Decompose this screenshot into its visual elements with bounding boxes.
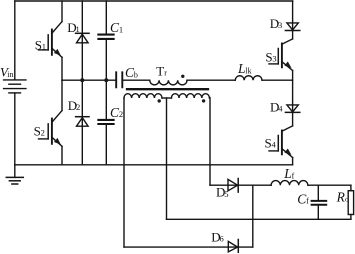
wire secondary right to D5 bbox=[210, 184, 271, 186]
ground bbox=[6, 165, 23, 184]
wire center tap down bbox=[166, 98, 168, 219]
capacitor C1 bbox=[98, 35, 113, 39]
wire top rail bbox=[15, 0, 293, 2]
svg-text:3: 3 bbox=[278, 20, 282, 30]
wire Lf to Ro bbox=[308, 184, 351, 186]
diode D2 bbox=[76, 117, 89, 127]
transformer core bbox=[127, 88, 208, 90]
svg-text:2: 2 bbox=[119, 109, 123, 119]
wire left rail lower bbox=[14, 93, 16, 165]
transformer T primary winding bbox=[150, 80, 187, 85]
wire Llk to right leg bbox=[262, 79, 293, 81]
svg-text:2: 2 bbox=[41, 128, 45, 138]
label D1 bbox=[67, 20, 79, 35]
svg-text:r: r bbox=[164, 69, 167, 78]
svg-text:3: 3 bbox=[272, 54, 276, 64]
transformer secondary winding right bbox=[171, 94, 209, 98]
inductor Llk bbox=[235, 76, 262, 80]
node secondary dot left bbox=[158, 99, 161, 102]
svg-text:f: f bbox=[292, 171, 295, 180]
diode D5 bbox=[228, 179, 238, 193]
label S4 bbox=[265, 136, 277, 151]
label Ro bbox=[336, 190, 349, 205]
svg-text:L: L bbox=[237, 61, 246, 76]
wire secondary centre tie bbox=[162, 97, 171, 99]
wire output return bbox=[167, 218, 351, 220]
svg-text:lk: lk bbox=[245, 66, 251, 75]
svg-text:1: 1 bbox=[76, 24, 80, 34]
svg-text:2: 2 bbox=[76, 102, 80, 112]
diode D6 bbox=[228, 240, 238, 253]
wire mid rail bbox=[62, 79, 115, 81]
label Tr bbox=[156, 64, 167, 79]
node junction dot at C leg bbox=[104, 78, 108, 82]
capacitor Cf bbox=[312, 185, 327, 219]
battery Vin bbox=[4, 80, 26, 93]
wire D6 branch vertical bbox=[252, 185, 254, 247]
svg-text:b: b bbox=[134, 70, 138, 79]
wire secondary right terminal down bbox=[209, 98, 211, 186]
capacitor Cb bbox=[116, 72, 122, 87]
label D4 bbox=[270, 99, 283, 114]
label S2 bbox=[34, 124, 45, 139]
resistor Ro bbox=[348, 185, 353, 219]
svg-text:4: 4 bbox=[278, 104, 283, 114]
svg-text:in: in bbox=[7, 70, 13, 79]
label D5 bbox=[216, 185, 228, 200]
transistor S1 (IGBT) bbox=[39, 1, 63, 80]
inductor Lf bbox=[271, 181, 308, 186]
svg-text:f: f bbox=[306, 196, 309, 205]
label S3 bbox=[265, 50, 276, 65]
node secondary dot right bbox=[202, 99, 205, 102]
label C1 bbox=[110, 20, 123, 35]
label D2 bbox=[68, 98, 80, 113]
wire primary to Llk bbox=[187, 79, 235, 81]
label Lf bbox=[283, 166, 294, 181]
wire capacitor leg bbox=[105, 1, 107, 165]
label Vin bbox=[0, 65, 13, 80]
diode D3 bbox=[285, 1, 299, 39]
label Cf bbox=[297, 191, 309, 206]
wire secondary left terminal down bbox=[123, 98, 125, 247]
transistor S4 (IGBT) bbox=[269, 126, 293, 165]
node primary polarity dot bbox=[181, 75, 184, 78]
diode D1 bbox=[76, 33, 89, 43]
wire bottom rail bbox=[15, 164, 293, 166]
transformer secondary winding left bbox=[124, 94, 162, 98]
svg-text:5: 5 bbox=[224, 189, 228, 199]
svg-text:1: 1 bbox=[119, 24, 123, 34]
capacitor C2 bbox=[98, 120, 113, 124]
diode D4 bbox=[285, 105, 299, 126]
label S1 bbox=[35, 37, 46, 52]
wire left rail upper bbox=[14, 1, 16, 80]
svg-text:T: T bbox=[156, 64, 164, 79]
transistor S3 (IGBT) bbox=[269, 39, 293, 105]
svg-text:1: 1 bbox=[42, 41, 46, 51]
wire Cb to primary bbox=[123, 79, 150, 81]
label D6 bbox=[211, 229, 223, 244]
node junction dot at D leg bbox=[80, 78, 84, 82]
label Cb bbox=[125, 65, 138, 80]
wire D6 row bbox=[124, 246, 253, 248]
wire diode leg bbox=[81, 1, 83, 165]
svg-text:o: o bbox=[345, 195, 349, 204]
svg-text:4: 4 bbox=[272, 140, 277, 150]
svg-text:6: 6 bbox=[220, 233, 224, 243]
label C2 bbox=[110, 105, 123, 120]
label D3 bbox=[270, 16, 282, 31]
transistor S2 (IGBT) bbox=[39, 80, 63, 165]
label Llk bbox=[237, 61, 252, 76]
svg-text:L: L bbox=[283, 166, 292, 181]
